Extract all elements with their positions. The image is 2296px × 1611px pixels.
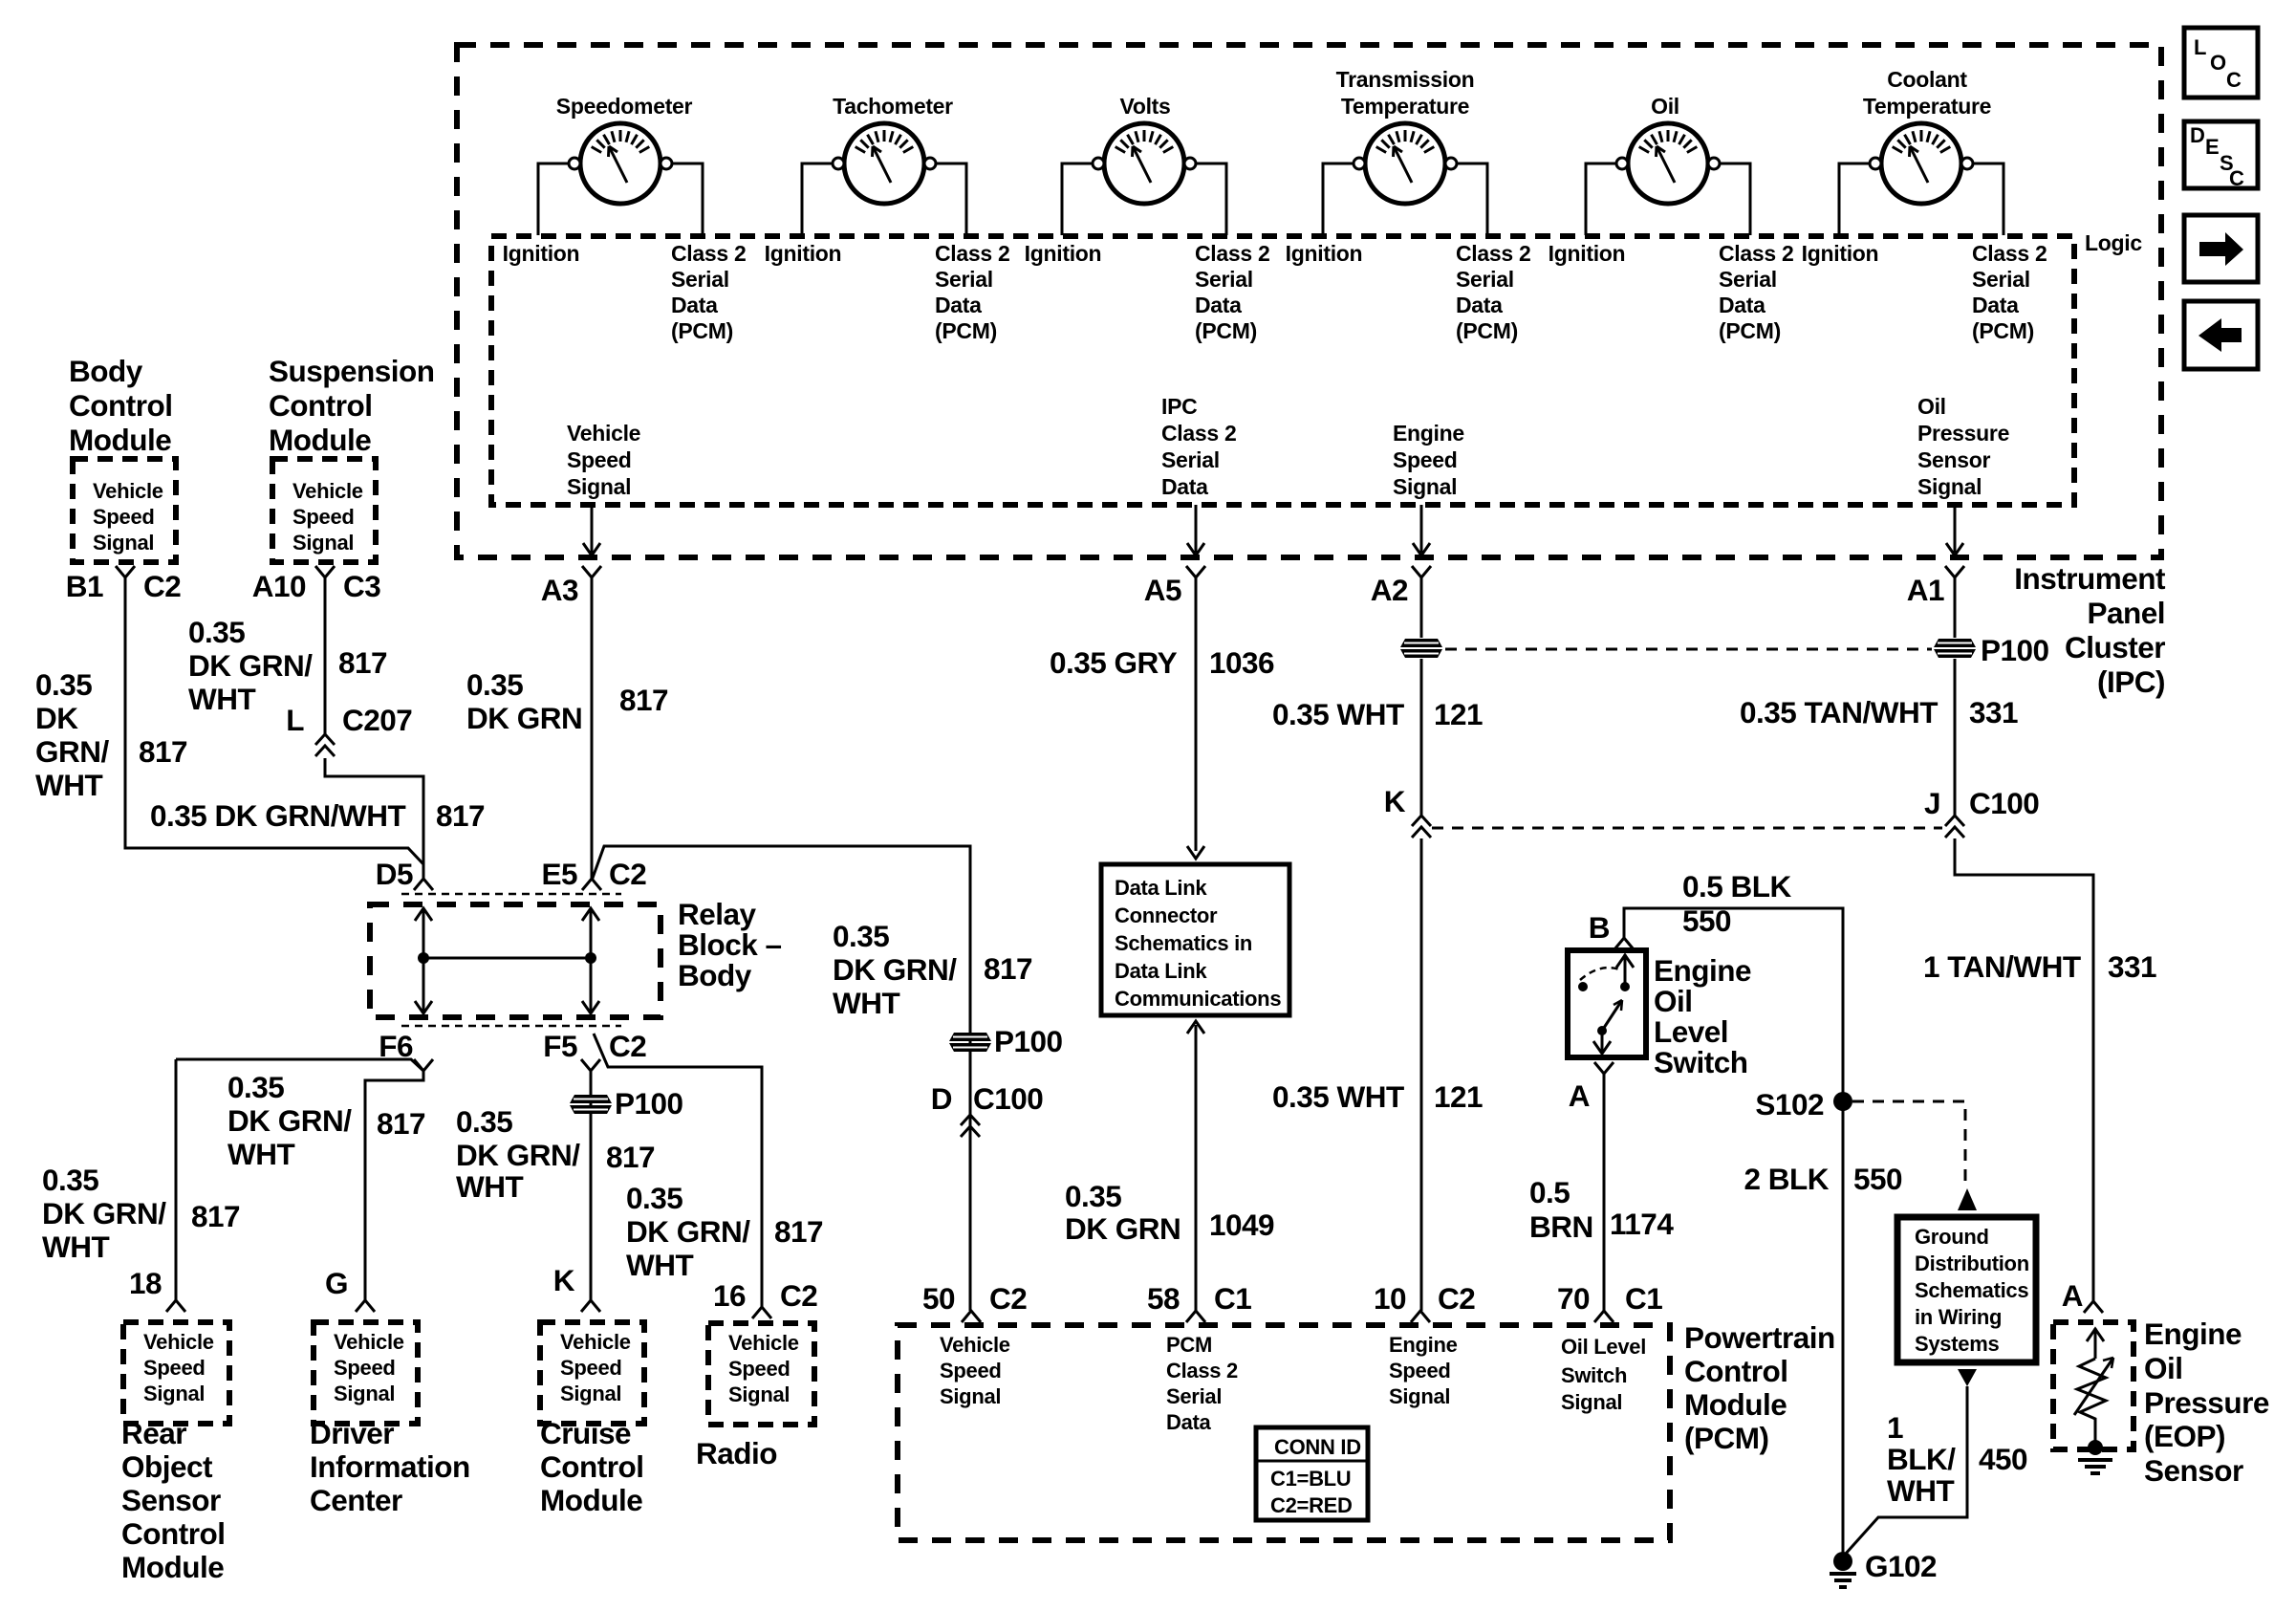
svg-text:Oil: Oil <box>1651 94 1679 119</box>
svg-text:Volts: Volts <box>1119 94 1170 119</box>
svg-text:Speedometer: Speedometer <box>556 94 693 119</box>
svg-text:Module: Module <box>269 423 371 457</box>
svg-text:C2: C2 <box>609 857 646 891</box>
svg-text:Transmission: Transmission <box>1336 67 1475 92</box>
svg-text:Signal: Signal <box>1393 474 1457 499</box>
svg-text:Temperature: Temperature <box>1341 94 1469 119</box>
svg-text:Ignition: Ignition <box>765 241 842 266</box>
svg-text:331: 331 <box>2108 949 2156 984</box>
svg-text:C100: C100 <box>973 1081 1043 1116</box>
svg-text:Engine: Engine <box>1389 1333 1458 1357</box>
svg-text:A3: A3 <box>541 573 578 607</box>
svg-text:(PCM): (PCM) <box>1719 318 1781 343</box>
svg-text:50: 50 <box>922 1281 955 1316</box>
svg-text:Pressure: Pressure <box>1917 421 2009 446</box>
svg-text:817: 817 <box>619 683 668 717</box>
svg-text:Class 2: Class 2 <box>1195 241 1269 266</box>
svg-text:0.35: 0.35 <box>833 919 889 953</box>
svg-text:in Wiring: in Wiring <box>1915 1305 2002 1329</box>
svg-text:Speed: Speed <box>1389 1359 1451 1382</box>
svg-text:WHT: WHT <box>1887 1473 1954 1508</box>
svg-text:Data: Data <box>1161 474 1208 499</box>
svg-text:Oil: Oil <box>1654 984 1693 1018</box>
svg-text:A: A <box>1569 1078 1590 1113</box>
svg-text:Speed: Speed <box>1393 447 1458 472</box>
svg-text:0.5 BLK: 0.5 BLK <box>1682 869 1792 903</box>
svg-text:0.35 DK GRN/WHT: 0.35 DK GRN/WHT <box>150 798 406 833</box>
svg-text:Data Link: Data Link <box>1115 959 1207 983</box>
svg-text:C1: C1 <box>1625 1281 1662 1316</box>
svg-text:0.35: 0.35 <box>188 615 245 649</box>
svg-text:Communications: Communications <box>1115 987 1281 1011</box>
svg-text:(PCM): (PCM) <box>935 318 997 343</box>
svg-text:Module: Module <box>121 1550 224 1584</box>
svg-text:550: 550 <box>1853 1162 1902 1196</box>
svg-text:817: 817 <box>338 645 387 680</box>
svg-text:A1: A1 <box>1907 573 1944 607</box>
svg-text:Module: Module <box>69 423 171 457</box>
svg-text:L: L <box>2194 35 2206 59</box>
svg-text:Speed: Speed <box>940 1359 1002 1382</box>
svg-text:Signal: Signal <box>1389 1384 1450 1408</box>
svg-text:DK GRN/: DK GRN/ <box>227 1103 352 1138</box>
svg-text:70: 70 <box>1557 1281 1590 1316</box>
svg-text:Serial: Serial <box>935 267 993 292</box>
svg-text:WHT: WHT <box>42 1230 109 1264</box>
svg-text:Data: Data <box>1719 293 1765 317</box>
svg-text:(EOP): (EOP) <box>2144 1419 2225 1453</box>
svg-text:(PCM): (PCM) <box>1972 318 2034 343</box>
svg-text:Data: Data <box>671 293 718 317</box>
svg-text:Serial: Serial <box>1719 267 1777 292</box>
svg-text:Signal: Signal <box>334 1382 395 1405</box>
svg-text:D5: D5 <box>376 857 413 891</box>
svg-text:0.35: 0.35 <box>1065 1179 1121 1213</box>
svg-text:817: 817 <box>139 734 187 769</box>
svg-text:(PCM): (PCM) <box>1195 318 1257 343</box>
svg-text:16: 16 <box>713 1278 746 1313</box>
svg-text:Pressure: Pressure <box>2144 1385 2269 1420</box>
svg-text:WHT: WHT <box>35 768 102 802</box>
svg-text:BRN: BRN <box>1529 1209 1593 1244</box>
svg-text:0.35 WHT: 0.35 WHT <box>1272 1079 1404 1114</box>
svg-text:Control: Control <box>121 1516 225 1551</box>
svg-text:10: 10 <box>1374 1281 1406 1316</box>
svg-text:Radio: Radio <box>696 1436 777 1470</box>
svg-text:(IPC): (IPC) <box>2097 664 2165 699</box>
svg-text:Oil: Oil <box>2144 1351 2183 1385</box>
svg-text:Ignition: Ignition <box>1025 241 1102 266</box>
svg-text:C2=RED: C2=RED <box>1270 1493 1353 1517</box>
svg-text:A5: A5 <box>1144 573 1181 607</box>
svg-text:Class 2: Class 2 <box>1166 1359 1238 1382</box>
svg-text:P100: P100 <box>994 1024 1063 1058</box>
svg-text:O: O <box>2210 51 2226 75</box>
svg-text:Speed: Speed <box>728 1357 791 1381</box>
svg-text:K: K <box>1384 784 1406 818</box>
svg-text:Control: Control <box>1684 1354 1787 1388</box>
svg-text:Signal: Signal <box>560 1382 621 1405</box>
svg-text:DK GRN/: DK GRN/ <box>833 952 957 987</box>
svg-text:(PCM): (PCM) <box>1684 1421 1768 1455</box>
svg-text:0.35 TAN/WHT: 0.35 TAN/WHT <box>1740 695 1938 729</box>
svg-text:Panel: Panel <box>2087 596 2165 630</box>
svg-text:0.35: 0.35 <box>35 667 92 702</box>
svg-text:DK GRN/: DK GRN/ <box>42 1196 166 1230</box>
svg-text:C100: C100 <box>1969 786 2039 820</box>
svg-text:Signal: Signal <box>728 1382 790 1406</box>
svg-text:C2: C2 <box>989 1281 1027 1316</box>
svg-text:331: 331 <box>1969 695 2018 729</box>
svg-text:817: 817 <box>377 1106 425 1141</box>
svg-text:Class 2: Class 2 <box>1972 241 2047 266</box>
svg-text:A2: A2 <box>1371 573 1408 607</box>
svg-text:Signal: Signal <box>567 474 631 499</box>
svg-text:Serial: Serial <box>1161 447 1220 472</box>
svg-text:(PCM): (PCM) <box>1456 318 1518 343</box>
svg-text:817: 817 <box>984 951 1032 986</box>
svg-text:Vehicle: Vehicle <box>292 479 363 503</box>
svg-text:Data Link: Data Link <box>1115 876 1207 900</box>
svg-text:Engine: Engine <box>2144 1317 2242 1351</box>
svg-text:Ground: Ground <box>1915 1225 1989 1249</box>
svg-text:GRN/: GRN/ <box>35 734 109 769</box>
svg-text:Cruise: Cruise <box>540 1416 631 1450</box>
svg-text:Powertrain: Powertrain <box>1684 1320 1835 1355</box>
svg-text:C2: C2 <box>1438 1281 1475 1316</box>
svg-text:Vehicle: Vehicle <box>940 1333 1010 1357</box>
svg-text:P100: P100 <box>615 1086 683 1121</box>
svg-text:Sensor: Sensor <box>1917 447 1991 472</box>
svg-text:S102: S102 <box>1755 1087 1824 1121</box>
svg-text:C3: C3 <box>343 569 380 603</box>
svg-text:Speed: Speed <box>334 1356 396 1380</box>
svg-text:Speed: Speed <box>93 505 155 529</box>
svg-text:F5: F5 <box>543 1029 577 1063</box>
svg-text:Suspension: Suspension <box>269 354 435 388</box>
svg-text:0.35: 0.35 <box>626 1181 682 1215</box>
svg-text:1: 1 <box>1887 1410 1903 1445</box>
svg-text:Class 2: Class 2 <box>671 241 746 266</box>
svg-text:Module: Module <box>540 1483 642 1517</box>
svg-text:D: D <box>931 1081 952 1116</box>
svg-text:DK GRN/: DK GRN/ <box>456 1138 580 1172</box>
svg-text:Engine: Engine <box>1393 421 1464 446</box>
svg-text:DK GRN: DK GRN <box>466 701 582 735</box>
svg-text:DK GRN: DK GRN <box>1065 1211 1180 1246</box>
svg-text:Vehicle: Vehicle <box>93 479 163 503</box>
svg-text:Tachometer: Tachometer <box>833 94 953 119</box>
svg-text:BLK/: BLK/ <box>1887 1442 1956 1476</box>
svg-text:Switch: Switch <box>1561 1363 1627 1387</box>
svg-text:Serial: Serial <box>1456 267 1514 292</box>
svg-text:0.35: 0.35 <box>466 667 523 702</box>
svg-text:DK GRN/: DK GRN/ <box>188 648 313 683</box>
svg-text:Center: Center <box>310 1483 402 1517</box>
svg-text:Data: Data <box>1456 293 1503 317</box>
svg-text:Speed: Speed <box>567 447 632 472</box>
svg-text:2 BLK: 2 BLK <box>1744 1162 1829 1196</box>
svg-text:J: J <box>1924 786 1940 820</box>
svg-text:L: L <box>286 703 304 737</box>
svg-text:1174: 1174 <box>1610 1207 1674 1241</box>
svg-text:Speed: Speed <box>560 1356 622 1380</box>
svg-text:Signal: Signal <box>1917 474 1982 499</box>
svg-text:Serial: Serial <box>671 267 729 292</box>
svg-text:C: C <box>2226 68 2242 92</box>
svg-text:Control: Control <box>69 388 172 423</box>
svg-text:Systems: Systems <box>1915 1332 1999 1356</box>
svg-text:(PCM): (PCM) <box>671 318 733 343</box>
svg-text:Cluster: Cluster <box>2065 630 2165 664</box>
svg-text:K: K <box>553 1263 575 1297</box>
svg-text:Oil Level: Oil Level <box>1561 1335 1646 1359</box>
svg-text:Serial: Serial <box>1166 1384 1222 1408</box>
svg-text:Driver: Driver <box>310 1416 394 1450</box>
svg-text:18: 18 <box>129 1266 162 1300</box>
svg-text:Control: Control <box>540 1449 643 1484</box>
svg-text:Vehicle: Vehicle <box>560 1330 631 1354</box>
svg-text:PCM: PCM <box>1166 1333 1212 1357</box>
svg-text:Data: Data <box>1195 293 1242 317</box>
svg-text:Data: Data <box>1166 1410 1212 1434</box>
svg-text:0.35: 0.35 <box>42 1163 98 1197</box>
svg-text:Instrument: Instrument <box>2014 561 2166 596</box>
svg-text:C1: C1 <box>1214 1281 1251 1316</box>
svg-text:Block –: Block – <box>678 927 782 962</box>
svg-text:Ignition: Ignition <box>1286 241 1363 266</box>
svg-text:Vehicle: Vehicle <box>143 1330 214 1354</box>
svg-text:WHT: WHT <box>188 682 255 716</box>
svg-text:Sensor: Sensor <box>121 1483 221 1517</box>
svg-text:Rear: Rear <box>121 1416 186 1450</box>
svg-text:Data: Data <box>935 293 982 317</box>
svg-text:P100: P100 <box>1981 633 2049 667</box>
svg-text:Coolant: Coolant <box>1887 67 1967 92</box>
svg-text:817: 817 <box>606 1140 655 1174</box>
svg-text:B: B <box>1589 910 1610 945</box>
svg-text:Logic: Logic <box>2085 230 2142 255</box>
svg-text:G102: G102 <box>1865 1549 1937 1583</box>
svg-text:Object: Object <box>121 1449 213 1484</box>
svg-text:Connector: Connector <box>1115 903 1218 927</box>
svg-text:0.35: 0.35 <box>227 1070 284 1104</box>
svg-text:Vehicle: Vehicle <box>334 1330 404 1354</box>
svg-text:Body: Body <box>678 958 752 992</box>
svg-text:Schematics: Schematics <box>1915 1278 2028 1302</box>
svg-text:A10: A10 <box>252 569 306 603</box>
svg-text:DK: DK <box>35 701 78 735</box>
svg-text:B1: B1 <box>66 569 103 603</box>
svg-text:WHT: WHT <box>456 1169 523 1204</box>
svg-text:0.5: 0.5 <box>1529 1175 1570 1209</box>
svg-text:Information: Information <box>310 1449 470 1484</box>
svg-text:C2: C2 <box>609 1029 646 1063</box>
svg-text:Class 2: Class 2 <box>1719 241 1793 266</box>
svg-text:Serial: Serial <box>1972 267 2030 292</box>
svg-text:D: D <box>2190 123 2205 147</box>
svg-text:A: A <box>2062 1278 2083 1313</box>
svg-text:Ignition: Ignition <box>1802 241 1879 266</box>
svg-text:Body: Body <box>69 354 143 388</box>
svg-text:IPC: IPC <box>1161 394 1197 419</box>
svg-text:Switch: Switch <box>1654 1045 1748 1079</box>
svg-text:58: 58 <box>1147 1281 1180 1316</box>
svg-text:121: 121 <box>1434 697 1483 731</box>
svg-text:1 TAN/WHT: 1 TAN/WHT <box>1923 949 2081 984</box>
svg-text:Serial: Serial <box>1195 267 1253 292</box>
svg-text:1036: 1036 <box>1209 645 1274 680</box>
svg-text:Signal: Signal <box>940 1384 1001 1408</box>
svg-text:0.35 GRY: 0.35 GRY <box>1050 645 1178 680</box>
svg-text:CONN ID: CONN ID <box>1274 1435 1361 1459</box>
svg-text:Control: Control <box>269 388 372 423</box>
svg-text:Vehicle: Vehicle <box>567 421 640 446</box>
svg-text:Engine: Engine <box>1654 953 1751 988</box>
svg-text:0.35 WHT: 0.35 WHT <box>1272 697 1404 731</box>
svg-text:Ignition: Ignition <box>1549 241 1626 266</box>
svg-text:Vehicle: Vehicle <box>728 1331 799 1355</box>
svg-text:Signal: Signal <box>143 1382 205 1405</box>
svg-text:Class 2: Class 2 <box>935 241 1009 266</box>
svg-text:Schematics in: Schematics in <box>1115 931 1252 955</box>
svg-text:C2: C2 <box>143 569 181 603</box>
svg-text:Speed: Speed <box>143 1356 206 1380</box>
svg-text:Distribution: Distribution <box>1915 1252 2029 1275</box>
svg-text:817: 817 <box>436 798 485 833</box>
svg-text:121: 121 <box>1434 1079 1483 1114</box>
svg-text:Class 2: Class 2 <box>1161 421 1236 446</box>
svg-text:Ignition: Ignition <box>503 241 580 266</box>
svg-text:Class 2: Class 2 <box>1456 241 1530 266</box>
svg-text:450: 450 <box>1979 1442 2027 1476</box>
svg-text:Signal: Signal <box>292 531 354 555</box>
svg-text:Level: Level <box>1654 1014 1728 1049</box>
svg-text:Module: Module <box>1684 1387 1787 1422</box>
svg-text:Relay: Relay <box>678 897 757 931</box>
svg-text:Temperature: Temperature <box>1863 94 1991 119</box>
svg-text:E5: E5 <box>541 857 577 891</box>
svg-text:550: 550 <box>1682 903 1731 938</box>
svg-text:C: C <box>2229 166 2244 190</box>
svg-text:WHT: WHT <box>833 986 899 1020</box>
svg-text:1049: 1049 <box>1209 1208 1274 1242</box>
svg-text:Oil: Oil <box>1917 394 1946 419</box>
svg-text:G: G <box>325 1266 348 1300</box>
svg-text:0.35: 0.35 <box>456 1104 512 1139</box>
svg-text:817: 817 <box>774 1214 823 1249</box>
svg-text:C1=BLU: C1=BLU <box>1270 1467 1351 1491</box>
svg-text:Sensor: Sensor <box>2144 1453 2243 1488</box>
svg-text:Signal: Signal <box>93 531 154 555</box>
svg-text:WHT: WHT <box>227 1137 294 1171</box>
svg-text:Signal: Signal <box>1561 1390 1622 1414</box>
svg-text:C2: C2 <box>780 1278 817 1313</box>
svg-text:Speed: Speed <box>292 505 355 529</box>
svg-text:WHT: WHT <box>626 1248 693 1282</box>
svg-text:E: E <box>2205 135 2219 159</box>
svg-text:817: 817 <box>191 1199 240 1233</box>
svg-text:DK GRN/: DK GRN/ <box>626 1214 750 1249</box>
svg-text:C207: C207 <box>342 703 412 737</box>
svg-text:Data: Data <box>1972 293 2019 317</box>
